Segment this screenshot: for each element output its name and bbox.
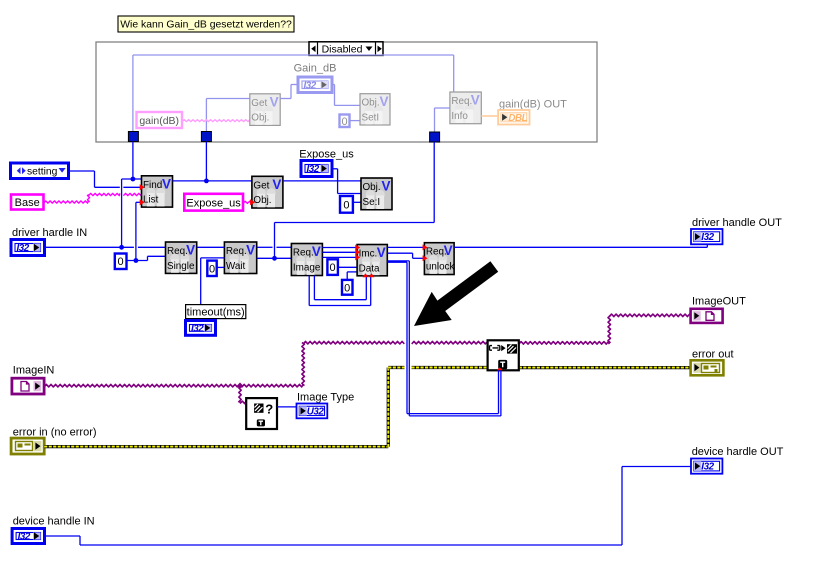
svg-text:I32: I32 (307, 164, 320, 175)
svg-text:Image Type: Image Type (297, 391, 354, 403)
wire 0a to Imc (338, 266, 357, 268)
Gain_dB I32 indicator (disabled) (298, 77, 332, 93)
svg-text:V: V (186, 243, 195, 258)
svg-text:Req.: Req. (451, 96, 472, 107)
wire driver handle to Req Single (45, 246, 134, 248)
red input marker Get Obj (250, 199, 255, 205)
svg-text:driver hardle IN: driver hardle IN (12, 227, 87, 239)
wire error converter to out (519, 366, 691, 369)
svg-text:0: 0 (118, 256, 124, 268)
wire Imc pair inner (387, 261, 407, 263)
purple junction (237, 382, 243, 388)
wire Imc to unlock a (387, 246, 424, 248)
svg-text:ImageOUT: ImageOUT (692, 296, 746, 308)
timeout wire (200, 258, 202, 305)
wire driver handle loop in case (132, 55, 134, 132)
op Req Image (291, 244, 322, 276)
svg-text:V: V (162, 176, 171, 191)
device handle IN I32 control (12, 529, 44, 544)
red input markers Req unlock (423, 244, 428, 250)
svg-text:Imc.: Imc. (359, 249, 378, 260)
comment label (118, 16, 294, 32)
svg-text:driver handle OUT: driver handle OUT (692, 217, 782, 229)
wire Imc to unlock b (387, 252, 412, 254)
svg-text:V: V (377, 245, 386, 260)
wire Imc pair outer (387, 260, 409, 262)
svg-text:0: 0 (343, 199, 349, 211)
op Req Wait (224, 242, 256, 274)
svg-text:I32: I32 (701, 232, 714, 243)
wire tunnel1 down (132, 142, 134, 180)
constant 0 (Find/Single index) (115, 254, 127, 270)
constant 0 (case) (340, 115, 350, 128)
constant 0 (Wait) (207, 261, 216, 276)
op Req unlock (424, 243, 454, 275)
wire Req Info to DBL (481, 115, 498, 117)
wire tunnel2 to Get Obj in case (205, 99, 207, 132)
op Obj SeI (361, 178, 392, 210)
svg-text:SetI: SetI (362, 113, 380, 124)
svg-text:timeout(ms): timeout(ms) (187, 306, 245, 318)
svg-text:V: V (270, 94, 279, 109)
svg-text:Obj.: Obj. (363, 182, 381, 193)
device hardle OUT I32 indicator (691, 459, 722, 474)
wire Find List index input (135, 202, 137, 260)
svg-text:Gain_dB: Gain_dB (294, 63, 337, 75)
wire tunnel3 to Req Info (434, 108, 436, 132)
svg-text:Find: Find (143, 180, 162, 191)
setting enum control (11, 163, 69, 179)
wire Image buffers to Imc outer (308, 276, 310, 306)
wire branch up to tunnel3 (274, 223, 276, 259)
driver hardle IN I32 control (11, 240, 45, 256)
red coercion marker (497, 367, 503, 370)
svg-text:V: V (471, 93, 480, 108)
wire 0 to Obj SetI (350, 120, 361, 122)
op Find List (142, 176, 173, 207)
op Obj SetI (disabled case) (360, 94, 390, 125)
gain(dB) string control (137, 112, 183, 128)
op Req Info (disabled case) (450, 92, 481, 124)
wire Wait to Image a (257, 246, 273, 248)
wire Image buffers to Imc inner (313, 276, 315, 300)
svg-text:Single: Single (167, 261, 195, 272)
wire Expose_us to Get Obj (243, 201, 252, 203)
red input marker Find List a (140, 184, 145, 190)
wire Get Obj to Obj SeI (283, 180, 361, 182)
red input markers Imc Data (355, 245, 360, 251)
svg-text:Data: Data (359, 263, 380, 274)
svg-text:Image: Image (293, 262, 321, 273)
svg-text:I32: I32 (17, 243, 30, 254)
wire purple corner up (608, 315, 611, 343)
svg-text:I32: I32 (304, 80, 317, 91)
wire setting to Find List (69, 170, 95, 172)
svg-text:I32: I32 (701, 462, 714, 473)
wire 0 to Req Single (127, 260, 148, 262)
wire device handle (45, 535, 81, 537)
case structure border (96, 42, 597, 142)
wire error up (387, 368, 390, 447)
op Get Obj (disabled case) (250, 94, 280, 126)
svg-text:device handle IN: device handle IN (13, 516, 95, 528)
svg-text:error out: error out (692, 349, 734, 361)
svg-text:setting: setting (27, 167, 58, 178)
op image type query (246, 398, 277, 429)
svg-text:V: V (272, 177, 281, 192)
constant 0 (Imc b) (342, 280, 353, 295)
annotation arrow (414, 261, 498, 326)
svg-text:0: 0 (330, 262, 336, 274)
Expose_us I32 control (301, 161, 332, 177)
tunnel T3 (430, 132, 440, 142)
svg-text:U32: U32 (307, 407, 325, 418)
wire Find List to Get Obj (173, 180, 252, 182)
op Req Single (166, 242, 197, 273)
svg-text:Wait: Wait (226, 261, 246, 272)
wire purple converter to corner (519, 342, 609, 345)
svg-text:?: ? (265, 402, 273, 417)
wire purple to ImageOUT (609, 314, 690, 317)
wire driver handle branch up (121, 179, 123, 247)
svg-text:device hardle OUT: device hardle OUT (692, 446, 784, 458)
wire Image to Imc c (322, 256, 357, 258)
svg-text:Disabled: Disabled (322, 44, 363, 56)
wire Get Obj to Gain_dB terminal (280, 98, 291, 100)
svg-text:Wie kann Gain_dB gesetzt werde: Wie kann Gain_dB gesetzt werden?? (120, 19, 292, 30)
svg-text:Expose_us: Expose_us (299, 149, 354, 161)
error out indicator (691, 360, 724, 375)
svg-text:I32: I32 (191, 324, 204, 335)
op array-to-image converter (488, 340, 519, 370)
wire tunnel2 stub (205, 142, 207, 181)
wire type to U32 (277, 406, 297, 408)
svg-text:gain(dB) OUT: gain(dB) OUT (499, 99, 567, 111)
svg-text:0: 0 (341, 116, 347, 128)
red bottom markers Imc Data (363, 273, 369, 277)
wire error in (44, 445, 388, 448)
wire Image to Imc b (322, 251, 357, 253)
wire unlock to driver handle OUT (454, 246, 707, 248)
wire purple branch to type node (239, 386, 241, 403)
svg-text:gain(dB): gain(dB) (139, 115, 179, 127)
svg-text:unlock: unlock (426, 262, 455, 273)
constant 0 (Imc a) (327, 259, 338, 275)
wire purple up (302, 343, 305, 386)
svg-text:ImageIN: ImageIN (13, 364, 55, 376)
svg-text:V: V (246, 243, 255, 258)
svg-text:V: V (381, 179, 390, 194)
wire 0b to Imc (346, 272, 348, 280)
driver handle OUT I32 indicator (691, 229, 723, 244)
svg-text:Obj.: Obj. (251, 113, 269, 124)
case selector label (309, 42, 383, 56)
svg-text:DBL: DBL (508, 113, 527, 124)
Expose_us string constant (184, 194, 243, 211)
svg-text:I32: I32 (18, 532, 31, 543)
wire ImageIN purple (44, 384, 303, 387)
svg-text:Get: Get (253, 180, 269, 191)
red input marker Find List b (140, 199, 145, 205)
svg-text:0: 0 (344, 282, 350, 294)
Base string control (11, 195, 44, 210)
svg-text:Expose_us: Expose_us (186, 198, 241, 210)
wire 0 to Wait (217, 266, 225, 268)
constant 0 (Obj SeI) (340, 196, 353, 213)
svg-text:Se:I: Se:I (363, 197, 381, 208)
svg-text:Get: Get (251, 98, 267, 109)
svg-text:Info: Info (451, 111, 468, 122)
svg-text:Obj.: Obj. (253, 195, 271, 206)
wire gain(dB) to Get Obj (182, 120, 250, 122)
op Get Obj (252, 176, 283, 208)
svg-text:Base: Base (15, 197, 40, 209)
svg-text:V: V (312, 244, 321, 259)
Image Type U32 indicator (297, 404, 328, 419)
gain(dB) OUT DBL indicator (498, 110, 529, 125)
tunnel T1 (128, 132, 138, 142)
svg-text:Req.: Req. (226, 246, 247, 257)
ImageOUT indicator (691, 309, 723, 323)
wire Base to Find List (44, 201, 89, 203)
wire Gain_dB to Obj SetI (332, 84, 335, 86)
svg-text:0: 0 (209, 263, 215, 275)
wire Wait to Image b (257, 257, 292, 259)
svg-text:Req.: Req. (293, 248, 314, 259)
svg-text:Req.: Req. (167, 246, 188, 257)
op Imc Data (357, 245, 387, 276)
wire error to converter (388, 366, 404, 369)
tunnel T2 (201, 132, 211, 142)
wire purple to converter (303, 341, 404, 344)
error in control (11, 438, 44, 454)
svg-text:V: V (379, 94, 388, 109)
svg-text:List: List (143, 195, 159, 206)
svg-text:Obj.: Obj. (362, 98, 380, 109)
timeout(ms) label box (186, 305, 246, 319)
ImageIN control (12, 378, 44, 394)
svg-text:V: V (444, 243, 453, 258)
wire Expose_us to Obj SeI (332, 168, 338, 170)
wire Single to Wait (197, 246, 225, 248)
wire 0 to Obj SeI (353, 201, 361, 203)
timeout(ms) I32 control (186, 321, 216, 336)
wire Image to Imc a (322, 247, 357, 249)
